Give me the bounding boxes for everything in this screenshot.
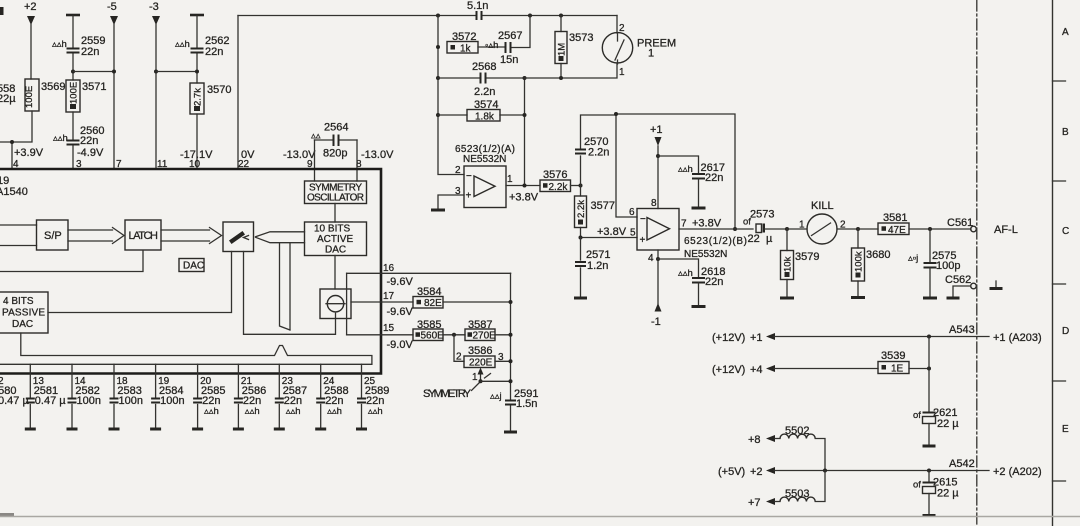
resistor 3584 (413, 286, 443, 309)
resistor 3574 (438, 99, 525, 123)
junction node (510.5,334.8) (509, 333, 513, 337)
svg-text:100E: 100E (69, 82, 80, 104)
svg-text:+4: +4 (750, 364, 763, 376)
svg-text:100k: 100k (854, 251, 865, 272)
wire 3587 to bus (495, 334, 511, 336)
svg-text:3581: 3581 (883, 212, 907, 224)
capacitor C2580 (cut off) pin 12 (0, 376, 29, 407)
connector C562 (945, 274, 976, 298)
svg-text:22n: 22n (705, 172, 723, 184)
svg-text:100n: 100n (119, 395, 143, 407)
junction node (510.5,361.3) (509, 359, 513, 363)
capacitor C2575 (908, 229, 960, 298)
svg-text:16: 16 (383, 263, 395, 274)
svg-text:1M: 1M (557, 43, 568, 56)
svg-text:3586: 3586 (468, 345, 492, 357)
svg-text:▵▵h: ▵▵h (53, 133, 68, 144)
svg-text:22 µ: 22 µ (937, 418, 959, 430)
block 10 BITS ACTIVE DAC (305, 222, 367, 256)
svg-text:47E: 47E (888, 225, 906, 236)
svg-text:LATCH: LATCH (129, 230, 159, 242)
svg-text:+2: +2 (24, 1, 37, 13)
zone tick marks (1053, 81, 1066, 481)
junction node (929,368.5) (927, 367, 931, 371)
svg-text:▵▵j: ▵▵j (490, 391, 502, 402)
capacitor C2618 (658, 259, 725, 307)
resistor 3585 (413, 319, 444, 342)
svg-text:+8: +8 (748, 434, 761, 446)
junction node (735,229) (733, 227, 737, 231)
node -5 supply (107, 1, 118, 25)
wire junction to 2562 column (156, 71, 197, 73)
dash-dot board boundary (976, 0, 978, 526)
svg-text:ACTIVE: ACTIVE (317, 234, 353, 245)
junction node (510.5,381.3) (509, 379, 513, 383)
wire 3571 to 2560 (72, 112, 74, 139)
op-amp U6523A (464, 166, 506, 208)
svg-text:22n: 22n (205, 46, 223, 58)
svg-text:-4.9V: -4.9V (77, 147, 104, 159)
wire pin 15 to 3585 (347, 334, 413, 336)
svg-text:+3.8V: +3.8V (692, 218, 722, 230)
zone border line (1052, 0, 1054, 526)
svg-text:22n: 22n (80, 135, 98, 147)
junction node (524.5,185.5) (523, 184, 527, 188)
wire pin 16 (347, 272, 511, 274)
junction node (510.5,302) (509, 300, 513, 304)
wire -5 to pin 7 (113, 24, 115, 169)
wire bar to 2562 (196, 16, 198, 47)
svg-text:7: 7 (681, 219, 687, 230)
wire 3581 to C561 (909, 228, 971, 230)
capacitor C2585 pin 20 (192, 376, 225, 429)
block LATCH (125, 220, 161, 250)
svg-text:C562: C562 (945, 274, 971, 286)
capacitor C2558 label (cut off) (0, 83, 16, 105)
block SYMMETRY OSCILLATOR (305, 181, 367, 204)
resistor 3587 (465, 319, 496, 342)
svg-text:22n: 22n (81, 46, 99, 58)
svg-text:270E: 270E (473, 331, 497, 342)
svg-text:22µ: 22µ (0, 93, 16, 105)
svg-text:1k: 1k (460, 44, 472, 55)
junction node (825,470.5) (823, 469, 827, 473)
svg-text:+3.9V: +3.9V (14, 147, 44, 159)
svg-text:▵▵h: ▵▵h (678, 268, 693, 279)
block 4 BITS PASSIVE DAC (0, 292, 48, 333)
svg-text:C561: C561 (947, 217, 973, 229)
svg-text:3576: 3576 (543, 169, 567, 181)
capacitor C2589 pin 25 (356, 376, 389, 429)
wire 3572 to 2567 (478, 46, 505, 48)
op-amp U6523B (637, 209, 679, 251)
wire pin16 internal (346, 273, 348, 335)
wire pin 17 to 3584 (351, 301, 413, 303)
wire kill to 3581 (858, 228, 878, 230)
capacitor C2559 (52, 35, 105, 58)
wire 3569 to node (0, 111, 32, 169)
wire rail down to 2621 (928, 337, 930, 412)
node +3.8V pin 5 (597, 226, 636, 239)
capacitor C2587 pin 23 (274, 376, 307, 429)
resistor 3573 (555, 16, 593, 79)
bus active DAC to switch (256, 232, 305, 243)
svg-text:S/P: S/P (44, 230, 62, 242)
wire 2562 to junction (196, 54, 198, 83)
svg-text:▵▵h: ▵▵h (286, 406, 301, 417)
svg-text:E: E (1062, 424, 1069, 435)
junction node (156,71.5) (154, 70, 158, 74)
switch KILL (787, 200, 858, 244)
resistor 3569 (24, 79, 65, 111)
junction node (929,470.5) (927, 469, 931, 473)
capacitor C2559 rail bar (66, 14, 80, 17)
svg-text:+1: +1 (750, 332, 763, 344)
node junction 2559/3571 (71, 70, 75, 74)
connector C561 (947, 217, 976, 232)
junction node (787,229) (785, 227, 789, 231)
svg-text:17: 17 (383, 291, 395, 302)
svg-text:3570: 3570 (207, 84, 231, 96)
svg-text:+2: +2 (750, 466, 763, 478)
svg-text:5: 5 (630, 228, 636, 239)
wire feedback opamp B (616, 114, 735, 229)
inductor 5503 (775, 471, 825, 502)
wire +2 rail down to 2615 (928, 471, 930, 482)
capacitor C2621 (913, 407, 959, 446)
capacitor C5.1n 2566 (467, 0, 488, 20)
wire pin 4 down (657, 250, 659, 304)
svg-text:−: − (466, 171, 472, 182)
wire LATCH bottom out (0, 251, 143, 272)
svg-text:2: 2 (840, 220, 846, 231)
svg-text:1E: 1E (891, 364, 904, 375)
wire +2 to 3569 (30, 24, 32, 79)
svg-text:1.2n: 1.2n (587, 260, 608, 272)
svg-text:(+12V): (+12V) (712, 364, 745, 376)
wire feedback rail to pin 22 (237, 16, 239, 170)
junction node (658,156) (656, 154, 660, 158)
op-amp U6523B label (684, 236, 747, 260)
node -17.1V pin 10 (180, 149, 213, 170)
svg-text:(+12V): (+12V) (712, 332, 745, 344)
svg-text:2.2k: 2.2k (549, 182, 569, 193)
junction node (524.5,78) (523, 76, 527, 80)
junction node (438,15.5) (436, 14, 440, 18)
svg-text:-1: -1 (651, 316, 661, 328)
capacitor C2586 pin 21 (233, 376, 266, 429)
junction node (438,47) (436, 45, 440, 49)
svg-text:100E: 100E (24, 86, 35, 108)
capacitor C2571 (574, 238, 610, 299)
resistor 3576 (540, 169, 571, 193)
ground op-amp A (431, 209, 445, 212)
junction node (524.5,115) (523, 113, 527, 117)
svg-text:(+5V): (+5V) (718, 466, 745, 478)
svg-text:22n: 22n (705, 276, 723, 288)
svg-text:▵▵h: ▵▵h (327, 406, 342, 417)
svg-text:3680: 3680 (866, 249, 890, 261)
capacitor C2588 pin 24 (315, 376, 348, 429)
node +1 feed (712, 332, 775, 344)
svg-text:220E: 220E (469, 358, 493, 369)
svg-text:of: of (913, 480, 921, 491)
trimmer SYMMETRY wiper (423, 368, 511, 401)
wire passive DAC to switch (48, 252, 232, 313)
svg-text:PASSIVE: PASSIVE (2, 308, 45, 319)
svg-text:▵▫j: ▵▫j (908, 253, 918, 264)
wire 2567 up to rail (512, 16, 530, 48)
IC 6519 TDA1540 border (0, 169, 381, 374)
junction node (454,334.8) (452, 333, 456, 337)
bus output rail (hollow) (0, 333, 372, 364)
node +1 supply (650, 124, 663, 146)
svg-text:2.2k: 2.2k (576, 200, 587, 218)
bus S/P to LATCH (68, 228, 124, 244)
ground after C562 (990, 281, 1003, 289)
svg-text:2: 2 (619, 23, 625, 34)
svg-text:1: 1 (472, 372, 478, 383)
wire 3577 to pin 5 (581, 237, 638, 239)
svg-text:1.5n: 1.5n (516, 398, 537, 410)
svg-text:820p: 820p (323, 148, 347, 160)
resistor 3579 (780, 229, 819, 298)
wire 2568 rail to PREEM pin1 (525, 64, 618, 79)
block current source (320, 289, 351, 319)
resistor 3539 (878, 350, 909, 375)
svg-text:▵▵h: ▵▵h (368, 406, 383, 417)
resistor 3571 (66, 80, 106, 112)
switch PREEM 1 (602, 23, 676, 78)
capacitor C2568 (438, 61, 525, 98)
junction node (561,78) (559, 76, 563, 80)
svg-text:+1 (A203): +1 (A203) (993, 332, 1042, 344)
junction node (114,71.5) (112, 70, 116, 74)
wire +1 rail (774, 336, 989, 338)
wire OSC to active DAC (334, 204, 336, 223)
svg-text:8: 8 (651, 198, 657, 209)
svg-text:▵▵h: ▵▵h (52, 39, 67, 50)
svg-text:-13.0V: -13.0V (361, 149, 394, 161)
wire 3585 to node (443, 334, 465, 336)
wire junction to -5 line (73, 71, 114, 73)
wire serial inputs to S/P (0, 225, 37, 246)
capacitor C2564 (311, 122, 357, 160)
wire rail to PREEM pin2 (616, 16, 618, 34)
node pin 15 -9.0V (383, 323, 413, 351)
node -1 supply (651, 303, 662, 328)
capacitor C2581 pin 13 (25, 376, 66, 429)
resistor 3572 (447, 31, 478, 55)
capacitor C2573 (743, 209, 787, 246)
svg-text:2564: 2564 (324, 122, 348, 134)
scan artifact bottom-left edge (0, 513, 14, 517)
svg-text:3573: 3573 (569, 32, 593, 44)
svg-text:82E: 82E (424, 298, 442, 309)
svg-text:OSCILLATOR: OSCILLATOR (307, 193, 364, 204)
svg-text:2: 2 (456, 352, 462, 363)
svg-text:0.47 µ: 0.47 µ (0, 395, 29, 407)
junction node (929,336.5) (927, 335, 931, 339)
node -3 supply (149, 1, 160, 25)
node +8 feed (748, 434, 775, 446)
node +2 feed (718, 466, 775, 478)
svg-text:1: 1 (619, 67, 625, 78)
wire pin 8 up to 2564 (356, 140, 358, 181)
svg-text:3577: 3577 (591, 200, 615, 212)
svg-text:10 BITS: 10 BITS (314, 224, 350, 235)
wire output pin 7 (679, 228, 753, 230)
junction node (438,115) (436, 113, 440, 117)
node 0V pin 22 (238, 149, 255, 170)
svg-text:NE5532N: NE5532N (463, 154, 506, 165)
wire output pin 1 (506, 185, 540, 187)
inductor 5502 (775, 425, 825, 470)
wire 3576 to node (571, 185, 581, 187)
svg-text:D: D (1062, 326, 1069, 337)
svg-text:15: 15 (383, 323, 395, 334)
node pin 17 -9.6V (383, 291, 413, 318)
svg-text:2568: 2568 (472, 61, 496, 73)
wire pin 9 up to 2564 (314, 140, 316, 181)
svg-text:10k: 10k (783, 256, 794, 272)
svg-text:2567: 2567 (498, 30, 522, 42)
svg-text:+3.8V: +3.8V (597, 226, 627, 238)
junction node (530,15.5) (528, 14, 532, 18)
page fold line bottom (0, 516, 1080, 518)
svg-text:µ: µ (766, 233, 773, 245)
capacitor C2617 (658, 156, 725, 208)
wire +1 to pin 8 (657, 146, 659, 209)
svg-text:+7: +7 (748, 497, 761, 509)
svg-text:+: + (466, 191, 472, 202)
node pin 16 -9.6V (383, 263, 413, 288)
svg-text:+3.8V: +3.8V (509, 192, 539, 204)
capacitor C2582 pin 14 (67, 376, 101, 429)
svg-text:2.7k: 2.7k (193, 88, 204, 106)
svg-text:▵▵h: ▵▵h (204, 406, 219, 417)
capacitor C2584 pin 19 (150, 376, 184, 429)
wire inverting input rail x438 (438, 16, 464, 175)
svg-text:A543: A543 (949, 324, 975, 336)
svg-text:22 µ: 22 µ (937, 488, 959, 500)
wire 3539 to +1 rail (909, 368, 929, 370)
svg-text:-5: -5 (107, 1, 117, 13)
wire active DAC to current source (334, 256, 336, 290)
svg-text:15n: 15n (500, 54, 518, 66)
svg-text:A: A (1062, 27, 1069, 38)
node +3.9V pin 4 (13, 147, 44, 170)
svg-text:-9.0V: -9.0V (387, 339, 414, 351)
svg-text:0.47 µ: 0.47 µ (35, 395, 66, 407)
wire switch to current source (244, 252, 336, 335)
wire pin 3 to ground (438, 195, 464, 209)
bus LATCH to switch (161, 228, 222, 244)
svg-text:-3: -3 (149, 1, 159, 13)
svg-text:SYMMETRY: SYMMETRY (423, 388, 472, 400)
op-amp U6523A label (455, 144, 515, 165)
svg-text:22: 22 (748, 233, 760, 245)
junction node (858,229) (856, 227, 860, 231)
svg-text:1.8k: 1.8k (475, 112, 495, 123)
svg-text:5.1n: 5.1n (467, 0, 488, 12)
svg-text:6523(1/2)(B): 6523(1/2)(B) (684, 236, 747, 247)
svg-text:1: 1 (648, 48, 654, 60)
svg-text:C: C (1062, 226, 1069, 237)
node +7 feed (748, 497, 775, 509)
wire 2559 to junction (72, 54, 74, 80)
svg-text:2.2n: 2.2n (588, 147, 609, 159)
svg-text:100p: 100p (936, 260, 960, 272)
junction node (197,71.5) (195, 70, 199, 74)
svg-text:A1540: A1540 (0, 186, 28, 198)
wire +2 rail (774, 470, 989, 472)
wire bus pin drops (30, 364, 361, 398)
svg-text:−: − (640, 214, 646, 225)
junction node (580.5,237.5) (579, 236, 583, 240)
scan artifact top-left edge (0, 7, 4, 15)
svg-text:1: 1 (799, 220, 805, 231)
wire 2560 to pin 3 (72, 146, 74, 169)
resistor 3586 trimmer (456, 345, 511, 369)
svg-text:DAC: DAC (325, 245, 346, 256)
svg-text:DAC: DAC (12, 319, 33, 330)
svg-text:-9.6V: -9.6V (387, 306, 414, 318)
wire output rail x524.5 (524, 78, 526, 186)
label DAC box (179, 259, 204, 272)
capacitor C2562 rail bar (190, 14, 204, 17)
wire 3584 to bus (443, 301, 511, 303)
node pin4 junction (10, 140, 14, 144)
svg-text:3569: 3569 (41, 81, 65, 93)
capacitor C2615 (913, 477, 959, 516)
svg-text:AF-L: AF-L (994, 224, 1018, 236)
capacitor C2570 (575, 136, 609, 159)
svg-text:3571: 3571 (82, 81, 106, 93)
svg-text:▵▵h: ▵▵h (678, 164, 693, 175)
svg-text:▵▵h: ▵▵h (245, 406, 260, 417)
capacitor C2567 (485, 30, 522, 66)
svg-text:DAC: DAC (183, 261, 204, 272)
block switch (223, 222, 254, 252)
block S/P (37, 220, 69, 250)
svg-text:3579: 3579 (795, 251, 819, 263)
capacitor C2583 pin 18 (109, 376, 143, 429)
svg-text:▵▵h: ▵▵h (175, 39, 190, 50)
svg-text:2573: 2573 (750, 209, 774, 221)
node -4.9V pin 3 (76, 147, 104, 170)
svg-text:6: 6 (629, 207, 635, 218)
junction node (616,114) (614, 112, 618, 116)
wire bar to 2559 (72, 16, 74, 47)
wire top rail left segment (238, 15, 475, 17)
svg-text:KILL: KILL (811, 200, 834, 212)
svg-text:1: 1 (507, 174, 513, 185)
resistor 3581 (878, 212, 909, 236)
resistor 3577 (575, 186, 615, 238)
resistor 3570 (190, 83, 231, 114)
wire +4 to 3539 (774, 368, 878, 370)
node -13.0V pin 8 (356, 149, 394, 170)
wire node down to 3586 (454, 335, 464, 362)
svg-text:+: + (640, 235, 646, 246)
node -13.0V pin 9 (283, 149, 316, 170)
svg-text:of: of (913, 410, 921, 421)
svg-text:3539: 3539 (881, 350, 905, 362)
resistor 3680 (851, 229, 890, 298)
capacitor C2560 (53, 125, 104, 147)
wire node up through 2570 (581, 115, 617, 186)
